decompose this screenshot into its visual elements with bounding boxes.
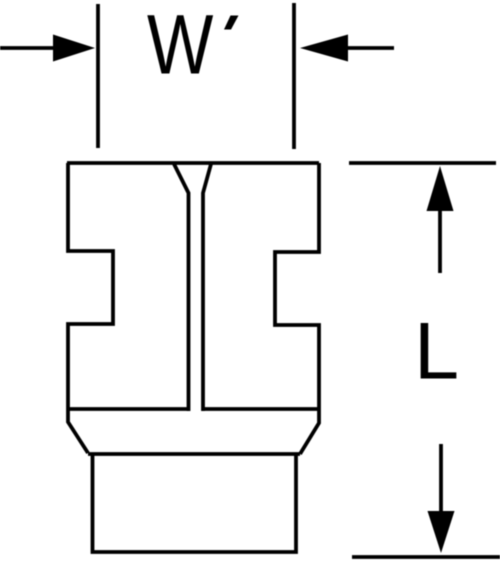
svg-text:W: W xyxy=(147,0,213,92)
svg-text:L: L xyxy=(414,307,459,397)
